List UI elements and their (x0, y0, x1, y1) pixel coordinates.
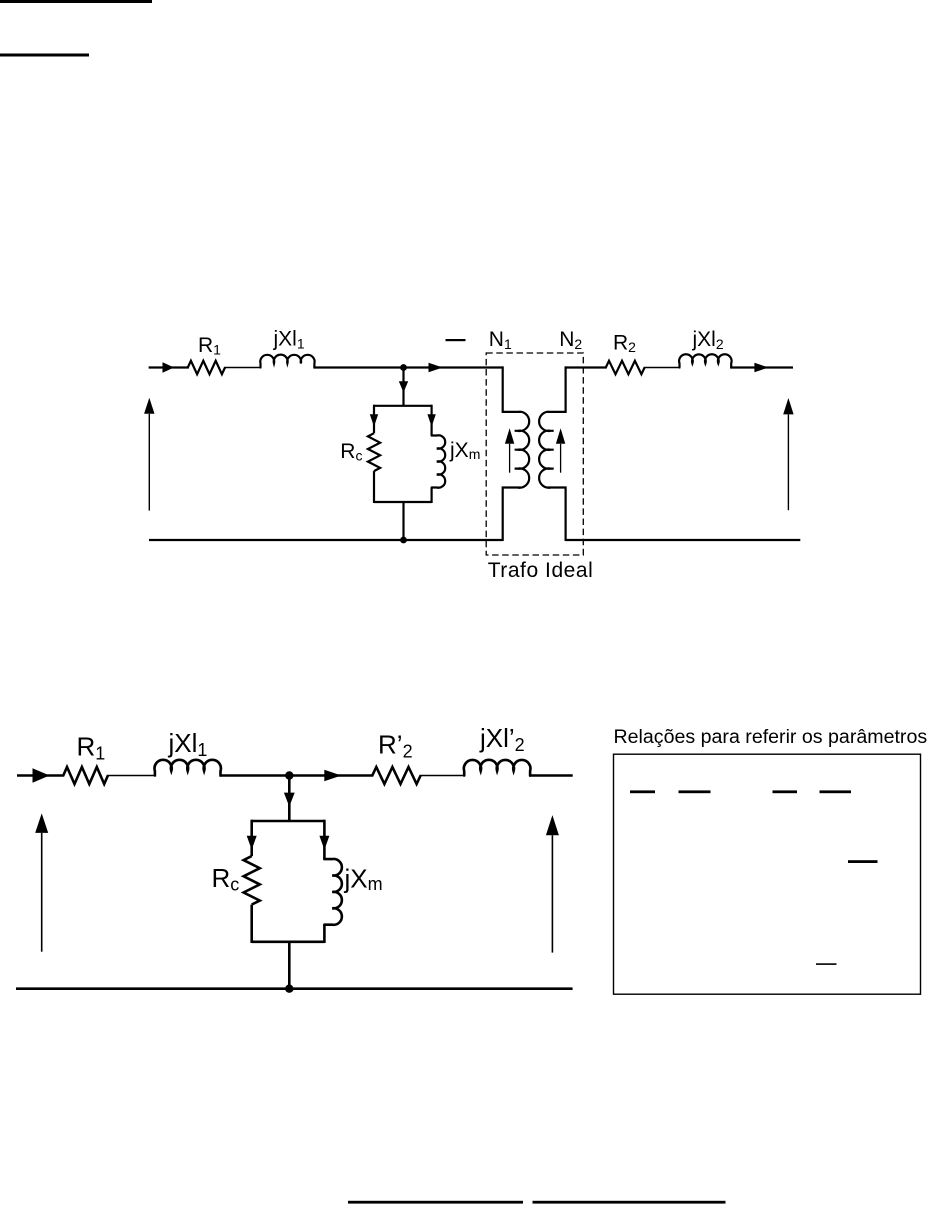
inductor jXm (c1) (432, 435, 446, 487)
wire: c1 R1 to jXl1 (224, 367, 262, 369)
svg-text:jXl1: jXl1 (168, 728, 208, 760)
node: c1 top junction (400, 364, 407, 371)
flux arrow in secondary (556, 428, 565, 472)
resistor R'2 (c2) (372, 767, 420, 784)
heading underline (top) (0, 0, 152, 3)
current arrow into primary (c1) (429, 363, 443, 372)
wire: c1 jXm branch top (431, 405, 433, 436)
wire: c2 jXm branch bottom (323, 925, 326, 943)
fraction bar: I2/I1 (773, 790, 798, 793)
sub-heading underline (0, 54, 89, 57)
ideal transformer dashed box (486, 353, 583, 555)
overbar of phasor label E1 (446, 339, 466, 341)
footer underline right (533, 1201, 726, 1204)
wire: c1 output segment (730, 366, 793, 368)
relations box frame (614, 754, 921, 994)
svg-text:Rc: Rc (212, 863, 240, 894)
wire: c2 R1 to jXl1 (107, 775, 156, 777)
inductor jXl1 (c2) (154, 760, 220, 776)
svg-text:jXl’2: jXl’2 (479, 723, 525, 755)
svg-text:jXm: jXm (344, 863, 383, 894)
wire: c2 jXm branch top (323, 820, 326, 859)
wire: c2 Rc branch top (250, 820, 253, 856)
inductor jXl2 (c1) (679, 354, 732, 367)
voltage arrow V'2 (c2 right) (546, 815, 559, 953)
svg-text:N2: N2 (559, 328, 582, 352)
wire: c2 shunt box top (252, 820, 325, 823)
wire: c1 jXm branch bottom (431, 488, 433, 504)
inductor jXl1 (c1) (260, 355, 314, 368)
wire: c1 Rc branch bottom (373, 471, 375, 503)
svg-text:Rc: Rc (340, 440, 362, 464)
svg-text:Trafo Ideal: Trafo Ideal (488, 559, 594, 582)
transformer secondary winding N2 (539, 366, 566, 541)
node: c1 bottom junction (400, 537, 407, 544)
voltage arrow V1 (c1 left) (144, 398, 154, 511)
inductor jXm (c2) (324, 859, 341, 925)
wire: c2 jXl1 to R'2 (220, 774, 374, 777)
current arrow into shunt (c1) (399, 381, 408, 392)
wire: c2 node to shunt box (288, 776, 291, 822)
footer underline left (348, 1201, 523, 1204)
wire: c1 secondary to R2 (566, 366, 607, 368)
fraction bar: Z'2 relation (848, 860, 878, 863)
svg-text:R1: R1 (77, 732, 106, 764)
wire: c2 shunt box bottom (252, 940, 325, 943)
wire: c2 input segment (17, 774, 64, 777)
fraction bar: a = N1/N2 (1) (630, 790, 655, 793)
resistor Rc (c2) (244, 856, 260, 905)
wire: c2 shunt to bottom rail (288, 942, 291, 989)
wire: c1 input segment (149, 366, 189, 368)
resistor R1 (c1) (188, 361, 225, 374)
current arrow I'2 (c2) (324, 770, 341, 782)
current arrow into Rc (c2) (247, 836, 257, 850)
current arrow into jXm (c2) (319, 836, 329, 850)
fraction bar: E1/E2 (820, 790, 852, 793)
svg-text:R’2: R’2 (378, 730, 413, 762)
voltage arrow V2 (c1 right) (783, 398, 793, 510)
svg-text:N1: N1 (489, 328, 512, 352)
wire: c1 bottom rail left (149, 539, 503, 541)
svg-text:R2: R2 (613, 332, 636, 355)
current arrow into Rc (c1) (370, 414, 378, 426)
wire: c1 Rc branch top (373, 405, 375, 434)
svg-text:jXl1: jXl1 (273, 327, 305, 351)
node: c2 top junction (285, 771, 293, 779)
transformer primary winding N1 (503, 366, 530, 541)
wire: c2 bottom rail (16, 987, 573, 990)
wire: c1 shunt box bottom (374, 501, 432, 503)
resistor R1 (c2) (63, 767, 108, 784)
fraction bar: small relation (816, 963, 837, 965)
resistor Rc (c1) (368, 433, 380, 471)
wire: c1 shunt to bottom rail (402, 502, 404, 540)
current arrow I1 (c1 input) (163, 362, 175, 372)
current arrow I1 (c2 input) (33, 768, 50, 782)
wire: c2 output segment (529, 774, 573, 777)
current arrow into jXm (c1) (427, 414, 435, 426)
wire: c2 Rc branch bottom (250, 905, 253, 943)
node: c2 bottom junction (285, 985, 293, 993)
wire: c2 R'2 to jXl'2 (420, 775, 466, 777)
svg-text:R1: R1 (198, 334, 221, 357)
wire: c1 bottom rail right (566, 539, 801, 541)
current arrow I2 (c1 output) (754, 363, 768, 372)
voltage arrow V1 (c2 left) (35, 813, 48, 951)
fraction bar: V1/V2 (679, 790, 711, 793)
wire: c1 shunt box top (374, 405, 432, 407)
wire: c1 node to shunt box (402, 368, 404, 406)
svg-text:Relações para referir os parâm: Relações para referir os parâmetros (614, 726, 928, 748)
resistor R2 (c1) (606, 361, 645, 374)
current arrow into shunt (c2) (284, 793, 295, 807)
wire: c1 jXl1 to transformer primary (313, 366, 502, 368)
wire: c1 R2 to jXl2 (644, 367, 681, 369)
svg-text:jXm: jXm (449, 439, 480, 462)
inductor jXl'2 (c2) (464, 760, 531, 776)
flux arrow in primary (505, 428, 514, 472)
svg-text:jXl2: jXl2 (692, 328, 724, 352)
